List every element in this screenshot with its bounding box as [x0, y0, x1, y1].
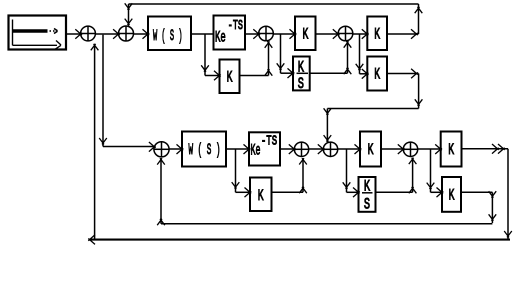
- block W(S) bottom: [182, 132, 226, 167]
- arrowhead end of K row2-3 output: [411, 69, 418, 79]
- wire: up into J3: [268, 41, 270, 75]
- wire: tap from top line down to B1: [102, 35, 104, 147]
- wire: up into J4: [347, 41, 349, 73]
- arrowhead end of bottom output: [498, 144, 505, 154]
- svg-text:K: K: [449, 186, 455, 204]
- svg-text:Ke: Ke: [215, 28, 226, 46]
- arrowhead into K top1: [290, 29, 297, 39]
- block K top1: [295, 17, 316, 51]
- arrowhead into B4: [398, 144, 405, 154]
- summing junction J1: [81, 26, 96, 41]
- source block (step input): [9, 16, 67, 50]
- wire: K bottom2 output: [462, 148, 509, 150]
- wire: K bottom1 to B4: [381, 148, 403, 150]
- wire: W(S) to Ke-TS bottom: [226, 148, 249, 150]
- wire: up into B1: [160, 158, 162, 224]
- arrowhead up on riser: [415, 7, 423, 13]
- svg-text:K: K: [303, 26, 309, 44]
- svg-text:Ke: Ke: [251, 141, 261, 159]
- arrowhead into K row2-1: [214, 71, 221, 81]
- svg-text:S: S: [364, 195, 370, 213]
- wire: up into B2: [302, 158, 304, 192]
- wire: into K/S row3: [347, 191, 359, 193]
- wire: feedback riser right: [418, 4, 420, 34]
- arrowhead into Ke-TS bottom: [244, 144, 251, 154]
- wire: feedback line B: [161, 223, 492, 225]
- summing junction B3: [323, 142, 337, 156]
- arrowhead left end of feedback A: [88, 235, 95, 245]
- arrowhead into B4 bottom: [409, 158, 417, 164]
- wire: outer feedback line A: [89, 239, 510, 241]
- summing junction J2: [119, 26, 134, 41]
- arrowhead at corner down: [489, 191, 497, 197]
- wire: up into B4: [412, 158, 414, 193]
- svg-text:-TS: -TS: [228, 18, 243, 34]
- wire: down into B3: [326, 109, 328, 143]
- svg-text:K: K: [368, 141, 374, 159]
- wire: drop to connector: [418, 74, 420, 109]
- arrowhead into K/S row2: [288, 68, 295, 78]
- arrowhead into J1 bottom: [91, 44, 99, 50]
- wire: J4 to K top2: [353, 33, 367, 35]
- wire: W(S) to Ke-TS top: [191, 33, 214, 35]
- arrowhead down on drop: [415, 99, 423, 105]
- arrowhead down after corner: [125, 3, 133, 9]
- wire: branch down to K row2-1: [204, 34, 206, 76]
- arrowhead into J4: [333, 29, 340, 39]
- wire: Ke-TS to J3: [245, 33, 259, 35]
- arrowhead at corner up 3: [299, 187, 307, 193]
- block K row2-1: [220, 60, 240, 94]
- summing junction B2: [294, 142, 308, 156]
- arrowhead into J2 top: [125, 19, 133, 25]
- arrowhead into K bottom1: [355, 144, 362, 154]
- wire: K top2 output: [387, 33, 419, 35]
- block K/S row3: [359, 177, 376, 212]
- arrowhead into K row3-1: [245, 188, 252, 198]
- wire: J3 to K block top1: [273, 33, 295, 35]
- summing junction J4: [338, 26, 353, 41]
- wire: Ke-TS to B2: [280, 148, 294, 150]
- wire: top feedback line: [129, 3, 419, 5]
- arrowhead at corner up: [265, 69, 273, 75]
- arrowhead at end of top output: [411, 29, 418, 39]
- arrowhead down branch3: [356, 64, 364, 70]
- arrowhead into B1 bottom: [157, 158, 165, 164]
- arrowhead into J3 bottom: [265, 41, 273, 47]
- arrowhead down branch1: [201, 65, 209, 71]
- wire: feedback drop into J2: [128, 4, 130, 26]
- arrowhead down branch2: [277, 63, 285, 69]
- wire: K row3-1 output: [272, 191, 304, 193]
- wire: into K row2-1: [205, 75, 220, 77]
- arrowhead into J3: [253, 29, 260, 39]
- summing junction B1: [154, 142, 169, 157]
- wire: J1 to J2: [95, 33, 118, 35]
- wire: connector to bottom chain: [327, 108, 418, 110]
- wire: branch down to K/S row2: [280, 34, 282, 73]
- arrowhead into B2: [289, 144, 296, 154]
- wire: into B1: [103, 146, 154, 148]
- block K bottom2: [441, 132, 462, 167]
- block K top2: [367, 17, 387, 51]
- block K row2-3: [367, 57, 387, 91]
- summing junction J3: [259, 26, 274, 41]
- arrowhead into W(S) top: [143, 29, 150, 39]
- wire: into K row2-3: [360, 73, 368, 75]
- arrowhead into J4 bottom: [344, 41, 352, 47]
- arrowhead down branch5: [232, 182, 240, 188]
- wire: into K row3-2: [431, 191, 443, 193]
- arrowhead down branch7: [427, 183, 435, 189]
- arrowhead into K top2: [362, 29, 369, 39]
- wire: B1 to W(S) bottom: [169, 148, 182, 150]
- wire: down to feedback B: [491, 192, 493, 223]
- arrowhead into W(S) bottom: [177, 144, 184, 154]
- block K row3-2: [442, 177, 461, 212]
- wire: into K/S row2: [281, 72, 294, 74]
- block W(S) top: [148, 17, 191, 51]
- svg-text:K: K: [448, 141, 454, 159]
- block K/S row2: [293, 57, 310, 91]
- svg-text:K: K: [374, 66, 380, 84]
- arrowhead into J2: [113, 29, 120, 39]
- svg-text:K: K: [227, 69, 233, 87]
- wire: B2 to B3: [309, 148, 324, 150]
- svg-text:K: K: [258, 187, 264, 205]
- block Ke^-TS bottom: [249, 132, 280, 165]
- arrowhead at corner up 4: [409, 187, 417, 193]
- arrowhead at corner up 2: [344, 68, 352, 74]
- block K row3-1: [250, 178, 272, 212]
- arrowhead into J1: [75, 29, 82, 39]
- wire: K row3-2 output: [461, 191, 492, 193]
- wire: branch down to K row3-2: [430, 149, 432, 192]
- arrowhead into B1: [149, 142, 156, 152]
- arrowhead at corner to B1: [99, 138, 107, 144]
- arrowhead down outer: [504, 231, 512, 237]
- wire: K row2-3 output: [387, 73, 419, 75]
- wire: into K row3-1: [236, 191, 251, 193]
- wire: K top1 to J4: [316, 33, 339, 35]
- wire: J2 to W(S): [134, 33, 149, 35]
- arrowhead into B3: [318, 144, 325, 154]
- wire: B3 to K bottom1: [338, 148, 360, 150]
- wire: source to J1: [66, 33, 81, 35]
- wire: B4 to K bottom2: [418, 148, 441, 150]
- svg-text:W ( S ): W ( S ): [153, 27, 183, 45]
- arrowhead into B3 top: [324, 135, 332, 141]
- arrowhead after corner: [324, 108, 332, 114]
- arrowhead on bottom output: [492, 144, 499, 154]
- arrowhead into K row2-3: [362, 69, 369, 79]
- arrowhead into B2 bottom: [299, 158, 307, 164]
- svg-text:W ( S ): W ( S ): [189, 141, 221, 159]
- wire: K row2-1 output: [240, 75, 269, 77]
- arrowhead into K bottom2: [435, 144, 442, 154]
- svg-text:-TS: -TS: [261, 133, 277, 149]
- block K bottom1: [360, 132, 381, 167]
- wire: branch down to K row3-1: [235, 149, 237, 192]
- wire: branch down to K/S row3: [346, 149, 348, 192]
- wire: outer feedback riser to J1: [94, 44, 96, 240]
- wire: K/S row3 output: [376, 191, 413, 193]
- arrowhead at corner up 5: [157, 219, 165, 225]
- svg-text:S: S: [298, 75, 304, 93]
- wire: branch down to K row2-3: [359, 34, 361, 74]
- arrowhead into K row3-2: [437, 188, 444, 198]
- block Ke^-TS top: [214, 16, 246, 50]
- wire: K/S row2 output: [310, 72, 348, 74]
- arrowhead onto feedback B: [489, 214, 497, 220]
- arrowhead into K/S row3: [353, 188, 360, 198]
- arrowhead down branch6: [343, 182, 351, 188]
- summing junction B4: [403, 142, 417, 156]
- wire: outer feedback drop: [507, 149, 509, 239]
- svg-text:K: K: [374, 26, 380, 44]
